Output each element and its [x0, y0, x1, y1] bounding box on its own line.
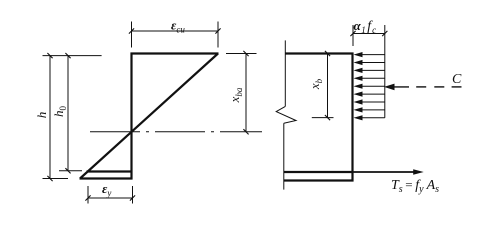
dim h tick bottom [47, 176, 52, 181]
stress arrow 4 [354, 76, 385, 81]
dim x_b line [327, 54, 329, 118]
stress arrow 1 [354, 52, 385, 57]
strain diagonal line [80, 54, 218, 179]
stress arrow 3 [354, 68, 385, 73]
stress arrow 9 [354, 115, 385, 120]
stress arrow 6 [354, 92, 385, 97]
stress arrow 2 [354, 60, 385, 65]
dim eps_cu tick left [129, 28, 134, 33]
svg-text:h: h [34, 112, 49, 119]
svg-text:εy: εy [102, 181, 111, 198]
dim eps_cu tick right [215, 28, 220, 33]
svg-text:εcu: εcu [171, 18, 185, 35]
stress arrow 8 [354, 107, 385, 112]
strain diagram bottom edge [80, 177, 133, 179]
strain diagram top edge [131, 52, 219, 54]
svg-text:Ts = fyAs: Ts = fyAs [391, 177, 439, 195]
svg-text:α1fc: α1fc [354, 18, 377, 35]
dim h0 line [67, 56, 69, 171]
dim x_ba tick bottom [243, 129, 248, 134]
dim x_b bottom extension line [312, 117, 334, 119]
dim x_ba tick top [243, 51, 248, 56]
beam right edge (compression face) [351, 53, 353, 182]
dim a1fc tick right [382, 31, 387, 36]
beam top edge [285, 52, 353, 54]
beam left edge lower segment [283, 123, 285, 189]
dim a1fc line [353, 33, 385, 35]
dim h0 bottom extension line [59, 170, 82, 172]
stress block right boundary [384, 25, 386, 118]
svg-text:C: C [452, 72, 462, 87]
stress arrow 5 [354, 84, 385, 89]
dim h0 tick top [65, 53, 70, 58]
beam bottom line (steel level) [284, 171, 354, 173]
steel level line (h0) [87, 170, 133, 172]
neutral axis centerline (dash-dot) [90, 131, 262, 133]
beam left edge upper segment [284, 40, 286, 106]
dim eps_y tick right [130, 195, 135, 200]
dim h top extension line [43, 55, 102, 57]
dim h line [49, 56, 51, 179]
dim eps_cu line [132, 30, 219, 32]
strain diagram vertical axis [130, 53, 132, 180]
dim x_ba top extension line [226, 53, 257, 55]
dim h tick top [47, 53, 52, 58]
dim eps_y extension bar right [132, 186, 134, 204]
beam break symbol zigzag [276, 106, 296, 123]
dim eps_y tick left [85, 195, 90, 200]
dim h0 tick bottom [65, 168, 70, 173]
force C dashed arrow [384, 84, 462, 91]
dim eps_y extension bar left [87, 186, 89, 204]
svg-text:xba: xba [227, 87, 244, 103]
dim x_b tick bottom [325, 115, 330, 120]
dim eps_cu extension bar right [217, 22, 219, 48]
beam bottom edge [284, 179, 354, 181]
svg-text:h0: h0 [51, 106, 68, 118]
force Ts arrow [354, 169, 424, 175]
dim h bottom extension line [43, 178, 69, 180]
dim x_b tick top [325, 51, 330, 56]
dim eps_y line [88, 197, 133, 199]
dim a1fc left extension bar [352, 25, 354, 46]
dim a1fc tick left [350, 31, 355, 36]
dim eps_cu extension bar left [131, 22, 133, 48]
stress arrow 7 [354, 99, 385, 104]
svg-text:xb: xb [307, 78, 324, 90]
dim x_ba line [245, 54, 247, 132]
